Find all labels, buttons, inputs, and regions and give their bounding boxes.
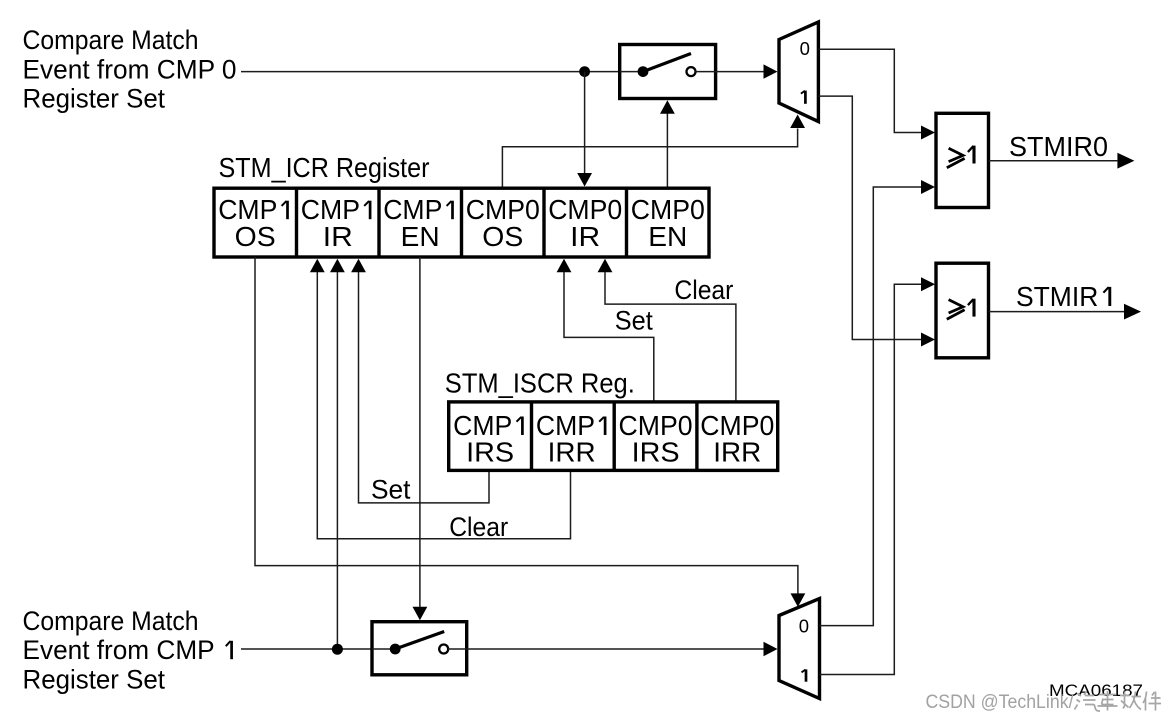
svg-text:Compare Match: Compare Match xyxy=(23,606,199,636)
wire DMX1 output 0 to OR gate U1 xyxy=(820,187,922,626)
STM_ISCR bit CMP1 IRS xyxy=(453,410,522,468)
watermark CJK jian xyxy=(1143,692,1161,711)
svg-text:0: 0 xyxy=(799,615,809,636)
watermark CJK glyphs xyxy=(1075,691,1162,711)
svg-text:Clear: Clear xyxy=(674,275,733,305)
svg-text:Set: Set xyxy=(371,474,411,504)
svg-text:Compare Match: Compare Match xyxy=(23,25,199,55)
wire CMP0 event to switch SW0 xyxy=(241,71,643,73)
wire set CMP1 IR from CMP1 IRS xyxy=(351,259,366,273)
svg-text:STMIR: STMIR xyxy=(1016,281,1098,312)
svg-text:IRS: IRS xyxy=(632,437,680,468)
svg-text:Register Set: Register Set xyxy=(23,84,166,114)
STM_ISCR bit CMP1 IRR xyxy=(536,410,605,468)
switch SW0 (CMP0 EN gate) xyxy=(620,45,716,99)
wire DMX1 output 1 to OR gate U2 xyxy=(820,284,922,674)
STM_ICR bit CMP0 EN xyxy=(631,194,705,252)
svg-text:STM_ICR Register: STM_ICR Register xyxy=(219,152,430,183)
svg-text:Register Set: Register Set xyxy=(23,665,166,695)
demux DMX1 (CMP1 output select) xyxy=(779,599,820,699)
svg-text:EN: EN xyxy=(401,221,440,252)
STM_ICR bit CMP1 IR xyxy=(301,194,370,252)
svg-text:IRR: IRR xyxy=(548,437,596,468)
svg-text:CSDN @TechLink/: CSDN @TechLink/ xyxy=(926,691,1075,713)
demux DMX0 (CMP0 output select) xyxy=(779,22,818,122)
wire hardware set CMP1 IR from event junction xyxy=(330,259,345,273)
wire U2 output STMIR1 xyxy=(989,311,1125,313)
STM_ICR bit CMP0 IR xyxy=(548,194,622,252)
wire CMP1 EN to switch SW1 control xyxy=(419,257,421,607)
wire CMP1 event to switch SW1 xyxy=(241,648,395,650)
svg-text:OS: OS xyxy=(482,221,523,252)
STM_ICR bit CMP1 OS xyxy=(218,194,287,252)
node label: Compare Match Event from CMP 1 Register Set xyxy=(23,606,232,695)
junction on CMP1 event wire xyxy=(332,644,343,655)
svg-text:EN: EN xyxy=(648,221,687,252)
OR gate U2 (STMIR1) xyxy=(936,263,989,358)
watermark CJK che xyxy=(1098,691,1118,711)
wire SW1 output to demux DMX1 input xyxy=(467,648,764,650)
svg-text:Event from CMP: Event from CMP xyxy=(23,635,215,665)
svg-text:OS: OS xyxy=(235,221,276,252)
wire SW0 output to demux DMX0 input xyxy=(716,71,764,73)
wire set CMP0 IR from CMP0 IRS xyxy=(557,259,572,273)
STM_ICR bit CMP0 OS xyxy=(466,194,540,252)
switch SW1 (CMP1 EN gate) xyxy=(372,622,467,675)
svg-text:IRR: IRR xyxy=(713,437,761,468)
OR gate U1 (STMIR0) xyxy=(936,113,989,207)
watermark CJK qi xyxy=(1075,692,1101,712)
wire SW0 control from CMP0 EN xyxy=(666,114,668,187)
STM_ISCR bit CMP0 IRR xyxy=(700,410,774,468)
svg-text:Clear: Clear xyxy=(449,512,508,542)
svg-text:STMIR0: STMIR0 xyxy=(1009,131,1108,162)
svg-text:Event from CMP 0: Event from CMP 0 xyxy=(23,55,237,85)
wire junction down to STM_ICR CMP0 IR (hardware set) xyxy=(584,72,586,173)
wire clear CMP1 IR from CMP1 IRR xyxy=(310,259,325,273)
register STM_ICR xyxy=(214,188,709,257)
STM_ISCR bit CMP0 IRS xyxy=(619,410,693,468)
wire clear CMP0 IR from CMP0 IRR xyxy=(598,259,613,273)
wire CMP1 OS to DMX1 select xyxy=(255,257,798,594)
wire DMX0 output 1 to OR gate U2 xyxy=(818,96,921,339)
svg-text:0: 0 xyxy=(800,38,810,59)
junction on CMP0 event wire xyxy=(579,66,590,77)
wire DMX0 select from CMP0 OS xyxy=(502,129,797,187)
register STM_ISCR xyxy=(449,402,778,471)
svg-text:IRS: IRS xyxy=(466,437,514,468)
STM_ICR bit CMP1 EN xyxy=(383,194,452,252)
svg-text:Set: Set xyxy=(615,306,653,336)
watermark CJK ruan xyxy=(1120,692,1141,710)
svg-text:IR: IR xyxy=(570,221,600,252)
node label: Compare Match Event from CMP 0 Register Set xyxy=(23,25,237,114)
wire DMX0 output 0 to OR gate U1 xyxy=(818,49,921,132)
svg-text:STM_ISCR Reg.: STM_ISCR Reg. xyxy=(445,367,635,398)
svg-text:IR: IR xyxy=(323,221,353,252)
wire U1 output STMIR0 xyxy=(989,160,1118,162)
